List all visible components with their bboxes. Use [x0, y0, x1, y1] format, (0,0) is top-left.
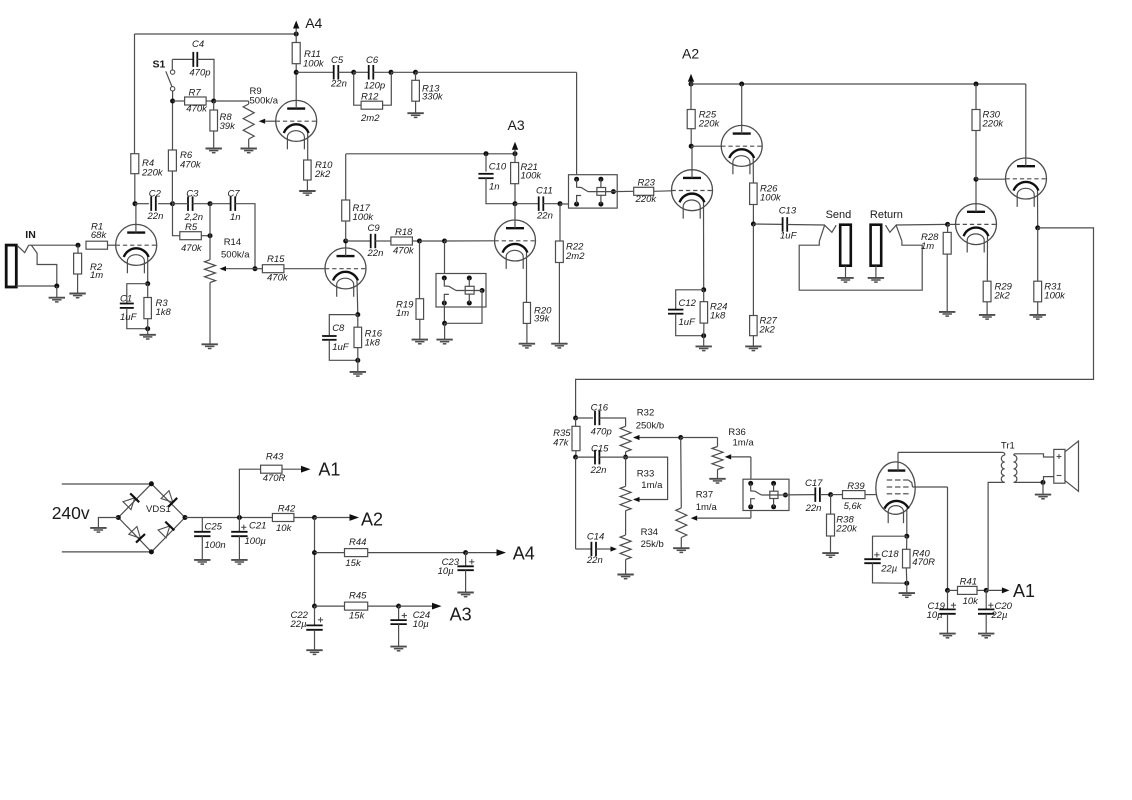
- svg-text:A3: A3: [450, 605, 472, 625]
- svg-text:2k2: 2k2: [314, 169, 331, 180]
- capacitor C2: [135, 189, 173, 223]
- node A3 feed: [399, 603, 472, 625]
- svg-text:A3: A3: [508, 117, 525, 133]
- svg-text:C1: C1: [120, 293, 132, 304]
- ground Send: [837, 266, 853, 282]
- label 240v: [52, 503, 90, 523]
- svg-text:1uF: 1uF: [780, 231, 798, 242]
- resistor R27: [750, 224, 778, 346]
- ground R34: [617, 575, 633, 579]
- ground R9: [241, 149, 257, 153]
- svg-text:2m2: 2m2: [565, 251, 585, 262]
- svg-text:C25: C25: [205, 522, 223, 533]
- capacitor C14: [576, 457, 617, 566]
- svg-text:R42: R42: [278, 504, 296, 515]
- ground R36: [709, 479, 725, 483]
- triode V6: [1006, 158, 1047, 207]
- capacitor C12: [668, 290, 706, 338]
- svg-text:R12: R12: [361, 92, 379, 103]
- svg-text:Send: Send: [826, 209, 852, 221]
- ground R29: [979, 315, 995, 319]
- svg-text:C11: C11: [536, 186, 553, 197]
- svg-text:39k: 39k: [220, 121, 237, 132]
- wiper R37 arrow: [691, 507, 751, 521]
- svg-text:C17: C17: [805, 478, 823, 489]
- wire to R33 wiper: [626, 457, 668, 502]
- svg-text:470p: 470p: [591, 427, 612, 438]
- capacitor C21: [231, 518, 266, 560]
- ground C20: [978, 634, 994, 638]
- svg-text:A2: A2: [361, 509, 383, 529]
- resistor R31: [1034, 228, 1066, 315]
- wire relay RL1 to ground: [442, 290, 482, 339]
- svg-text:C12: C12: [679, 298, 697, 309]
- node screen supply: [945, 588, 950, 593]
- ground R20: [519, 344, 535, 348]
- pot R33: [620, 457, 663, 511]
- svg-text:IN: IN: [25, 229, 36, 241]
- wiper R36 arrow: [725, 454, 751, 484]
- svg-text:R34: R34: [641, 527, 658, 538]
- wire pentode screen: [909, 480, 948, 590]
- svg-text:C15: C15: [591, 444, 609, 455]
- node A4: [293, 15, 323, 37]
- ground R22: [551, 344, 567, 348]
- svg-text:1n: 1n: [489, 182, 500, 193]
- wire V4b grid: [691, 145, 721, 147]
- resistor R44: [315, 537, 469, 569]
- node A1 power: [986, 581, 1035, 601]
- resistor R18: [391, 227, 422, 257]
- wiper R9 arrow: [259, 119, 276, 124]
- wire Tr1 secondary bottom: [1014, 477, 1054, 485]
- svg-text:470R: 470R: [263, 473, 286, 484]
- ground R27: [745, 346, 761, 350]
- pot R34: [620, 511, 664, 575]
- triode V5: [956, 204, 997, 253]
- wire Tr1 primary to A1 node: [986, 482, 1005, 590]
- svg-text:A2: A2: [682, 46, 699, 62]
- svg-text:1uF: 1uF: [679, 317, 697, 328]
- resistor R35: [553, 418, 580, 460]
- svg-text:A4: A4: [305, 15, 322, 31]
- wire C3 to R14: [209, 204, 211, 260]
- svg-text:C8: C8: [332, 323, 345, 334]
- wire V5 plate: [974, 177, 979, 212]
- resistor R4: [131, 154, 164, 204]
- ground R16: [350, 360, 366, 376]
- resistor R17: [342, 154, 375, 241]
- ground R38: [822, 553, 838, 557]
- speaker LS1: [1054, 441, 1079, 491]
- svg-text:R23: R23: [638, 178, 656, 189]
- wire pentode cathode: [904, 508, 909, 538]
- svg-text:A1: A1: [318, 459, 340, 479]
- svg-text:10µ: 10µ: [438, 566, 455, 577]
- relay RL1: [436, 241, 486, 307]
- wire V1b plate: [343, 239, 348, 257]
- svg-text:Tr1: Tr1: [1001, 441, 1015, 452]
- svg-text:C3: C3: [186, 189, 199, 200]
- svg-text:R7: R7: [189, 87, 202, 98]
- resistor R41: [948, 577, 989, 608]
- capacitor C25: [194, 518, 226, 560]
- svg-text:22n: 22n: [330, 79, 347, 90]
- bridge rectifier VDS1: [116, 481, 188, 554]
- ground C21: [231, 560, 247, 564]
- svg-text:A4: A4: [513, 544, 535, 564]
- svg-text:R5: R5: [185, 222, 198, 233]
- ground R13: [407, 113, 423, 117]
- svg-text:10k: 10k: [963, 596, 980, 607]
- triode V3: [495, 220, 536, 269]
- pot R32: [620, 408, 664, 460]
- node A3: [508, 117, 525, 156]
- svg-text:C9: C9: [368, 223, 381, 234]
- resistor R22: [556, 204, 586, 344]
- wiper R32 arrow: [633, 435, 683, 440]
- node C3: [170, 201, 175, 206]
- wire A2 rail: [691, 82, 1026, 87]
- svg-text:250k/b: 250k/b: [636, 421, 665, 432]
- capacitor C4: [172, 39, 214, 101]
- wire send-return loop: [799, 241, 922, 290]
- triode V1b: [325, 248, 366, 297]
- wire V2 cathode: [307, 133, 309, 160]
- capacitor C7: [210, 189, 258, 272]
- svg-text:100k: 100k: [760, 193, 782, 204]
- triode V4b: [721, 125, 762, 174]
- svg-text:2k2: 2k2: [759, 325, 776, 336]
- svg-text:100n: 100n: [205, 540, 226, 551]
- resistor R19: [396, 241, 424, 340]
- ground R2: [69, 294, 85, 298]
- relay RL2: [569, 175, 618, 208]
- svg-text:240v: 240v: [52, 503, 90, 523]
- svg-text:S1: S1: [153, 58, 166, 70]
- capacitor C23: [438, 553, 475, 593]
- svg-text:470k: 470k: [186, 103, 208, 114]
- resistor R3: [144, 284, 172, 329]
- capacitor C20: [978, 590, 1013, 633]
- resistor R5: [173, 204, 213, 254]
- svg-text:470p: 470p: [189, 68, 210, 79]
- svg-text:C5: C5: [331, 55, 344, 66]
- ground relay RL1: [436, 340, 452, 344]
- ground C24: [390, 647, 406, 651]
- wire V5 cathode: [986, 236, 988, 281]
- capacitor C16: [576, 403, 626, 438]
- capacitor C11: [515, 186, 563, 222]
- ground R31: [1030, 315, 1046, 319]
- svg-text:470k: 470k: [181, 243, 203, 254]
- capacitor C18: [864, 536, 909, 586]
- pot R14: [205, 237, 251, 344]
- pot R36: [681, 427, 755, 479]
- wiper R14 arrow: [220, 266, 256, 271]
- svg-text:22n: 22n: [805, 503, 822, 514]
- wire supply chain: [312, 518, 317, 609]
- svg-text:220k: 220k: [141, 168, 164, 179]
- capacitor C17: [785, 478, 833, 514]
- svg-text:Return: Return: [870, 209, 903, 221]
- svg-text:R14: R14: [224, 237, 241, 248]
- svg-text:22n: 22n: [590, 465, 607, 476]
- wire AC line bottom: [62, 551, 152, 553]
- svg-text:C4: C4: [192, 39, 204, 50]
- jack Send: [819, 209, 851, 266]
- resistor R39: [831, 481, 876, 512]
- svg-text:C13: C13: [779, 206, 797, 217]
- resistor R30: [972, 84, 1004, 179]
- resistor R38: [827, 495, 859, 553]
- svg-text:1m: 1m: [921, 241, 934, 252]
- svg-text:1m/a: 1m/a: [733, 437, 755, 448]
- svg-text:C2: C2: [149, 189, 162, 200]
- wire return to V5 grid: [896, 222, 950, 227]
- resistor R29: [983, 281, 1012, 315]
- svg-text:C10: C10: [489, 162, 507, 173]
- capacitor C6: [354, 55, 394, 92]
- ground R24: [696, 336, 712, 351]
- ground C19: [939, 634, 955, 638]
- triode V2: [276, 100, 317, 149]
- resistor R13: [412, 72, 444, 113]
- svg-text:1m/a: 1m/a: [641, 480, 663, 491]
- svg-text:39k: 39k: [534, 314, 551, 325]
- svg-text:22n: 22n: [586, 555, 603, 566]
- resistor R40: [903, 536, 936, 583]
- resistor R42: [272, 504, 317, 535]
- resistor R7: [170, 87, 216, 114]
- svg-text:15k: 15k: [349, 610, 366, 621]
- transformer Tr1: [1001, 441, 1017, 483]
- svg-text:C14: C14: [587, 532, 604, 543]
- wire V3 plate: [514, 204, 516, 229]
- switch S1: [153, 58, 175, 101]
- capacitor C9: [346, 223, 391, 259]
- ground R37: [673, 548, 689, 552]
- svg-text:470k: 470k: [393, 246, 415, 257]
- wire V4a plate: [691, 146, 693, 178]
- wire V2 plate: [295, 72, 297, 108]
- svg-text:100µ: 100µ: [245, 536, 267, 547]
- svg-text:C6: C6: [366, 55, 379, 66]
- resistor R23: [613, 178, 671, 206]
- capacitor C19: [927, 590, 957, 633]
- svg-text:R44: R44: [349, 537, 366, 548]
- wire V1b cathode: [355, 281, 360, 318]
- svg-text:220k: 220k: [698, 119, 721, 130]
- svg-text:100k: 100k: [521, 171, 543, 182]
- capacitor C1: [120, 284, 150, 332]
- capacitor C3: [173, 189, 213, 224]
- svg-text:10k: 10k: [276, 523, 293, 534]
- svg-text:C7: C7: [228, 189, 241, 200]
- svg-text:C21: C21: [249, 520, 266, 531]
- wire plate rail to A3: [346, 153, 515, 155]
- svg-text:470R: 470R: [912, 557, 935, 568]
- ground C25: [194, 560, 210, 564]
- svg-text:2k2: 2k2: [994, 291, 1011, 302]
- resistor R43: [239, 452, 285, 518]
- wire V1a plate: [133, 201, 138, 232]
- svg-text:100k: 100k: [1044, 291, 1066, 302]
- ground R8: [206, 149, 222, 153]
- svg-text:22µ: 22µ: [990, 610, 1008, 621]
- svg-text:500k/a: 500k/a: [221, 250, 250, 261]
- ground bridge: [90, 518, 118, 533]
- wire V5 grid: [948, 223, 956, 225]
- svg-text:10µ: 10µ: [927, 610, 944, 621]
- wire V6 grid: [976, 178, 1006, 180]
- svg-text:470k: 470k: [180, 160, 202, 171]
- svg-text:1uF: 1uF: [332, 342, 350, 353]
- svg-text:R43: R43: [266, 452, 284, 463]
- resistor R8: [210, 101, 236, 149]
- wire C11 to relay RL2: [560, 203, 577, 205]
- svg-text:22n: 22n: [367, 248, 384, 259]
- wire B+ rail: [185, 515, 273, 520]
- wire V4b plate: [741, 84, 743, 134]
- svg-text:22n: 22n: [147, 211, 164, 222]
- svg-text:1n: 1n: [230, 212, 241, 223]
- wire V3 cathode: [526, 253, 528, 303]
- svg-text:68k: 68k: [91, 230, 108, 241]
- node A1 feed: [282, 459, 340, 479]
- wire rail to relay RL2: [416, 72, 577, 179]
- svg-text:5,6k: 5,6k: [844, 501, 863, 512]
- ground R19: [412, 340, 428, 344]
- node A4 feed: [466, 544, 535, 564]
- capacitor C24: [390, 606, 430, 647]
- resistor R24: [700, 290, 727, 336]
- wire Tr1 secondary top: [1014, 454, 1054, 457]
- svg-text:R32: R32: [637, 408, 654, 419]
- svg-text:1k8: 1k8: [365, 337, 381, 348]
- ground R3: [140, 329, 156, 339]
- ground speaker: [1035, 482, 1051, 498]
- wire AC line top: [62, 483, 152, 485]
- resistor R10: [304, 160, 334, 191]
- node A2: [682, 46, 699, 87]
- pentode V7: [876, 462, 915, 523]
- pot R37: [676, 438, 718, 549]
- svg-text:R39: R39: [847, 481, 865, 492]
- svg-text:330k: 330k: [422, 92, 444, 103]
- wire V6 cathode: [1035, 191, 1040, 231]
- resistor R16: [354, 315, 383, 361]
- capacitor C15: [576, 444, 626, 477]
- capacitor C8: [322, 315, 360, 363]
- wire V1a cathode: [145, 257, 150, 286]
- svg-text:1k8: 1k8: [710, 310, 726, 321]
- resistor R28: [921, 224, 951, 312]
- ground R40: [899, 583, 915, 597]
- resistor R26: [750, 183, 782, 227]
- wire V6 plate: [1025, 84, 1027, 166]
- svg-text:R41: R41: [960, 577, 977, 588]
- svg-text:1m: 1m: [90, 270, 103, 281]
- capacitor C13: [753, 206, 824, 242]
- svg-text:100k: 100k: [303, 59, 325, 70]
- wire to R13: [391, 70, 418, 75]
- svg-text:1uF: 1uF: [120, 312, 138, 323]
- resistor R25: [687, 84, 720, 149]
- svg-text:R15: R15: [267, 254, 285, 265]
- wire input: [29, 243, 81, 248]
- svg-text:22µ: 22µ: [880, 564, 898, 575]
- capacitor C22: [290, 606, 324, 650]
- svg-text:47k: 47k: [553, 438, 570, 449]
- svg-text:R18: R18: [395, 227, 413, 238]
- svg-text:220k: 220k: [635, 194, 658, 205]
- svg-text:R37: R37: [696, 490, 713, 501]
- svg-text:22n: 22n: [536, 211, 553, 222]
- ground Return: [868, 266, 884, 282]
- capacitor C10: [478, 151, 515, 204]
- triode V4a: [672, 170, 713, 219]
- jack Return: [870, 209, 903, 266]
- svg-text:VDS1: VDS1: [146, 504, 171, 515]
- node A2 feed: [315, 509, 384, 529]
- svg-text:1m/a: 1m/a: [696, 502, 718, 513]
- resistor R20: [523, 302, 552, 343]
- svg-text:15k: 15k: [345, 558, 362, 569]
- capacitor C5: [296, 55, 356, 90]
- pot R9: [214, 86, 279, 149]
- resistor R11: [292, 34, 325, 75]
- svg-text:1m: 1m: [396, 308, 409, 319]
- wire grid V3: [420, 239, 495, 244]
- svg-text:C18: C18: [881, 549, 899, 560]
- wire V4a cathode: [701, 202, 706, 292]
- ground C23: [457, 593, 473, 597]
- svg-text:470k: 470k: [267, 273, 289, 284]
- resistor R6: [168, 101, 201, 204]
- svg-text:10µ: 10µ: [413, 619, 430, 630]
- ground jack: [49, 286, 65, 302]
- resistor R15: [255, 254, 325, 284]
- resistor R45: [315, 591, 402, 622]
- ground R28: [939, 312, 955, 316]
- ground R14: [202, 344, 218, 348]
- resistor R21: [511, 154, 543, 207]
- jack IN: [6, 229, 59, 289]
- wire A4 rail to R4: [135, 34, 297, 154]
- svg-text:22µ: 22µ: [290, 619, 308, 630]
- resistor R2: [74, 245, 104, 293]
- resistor R12: [354, 72, 392, 124]
- svg-text:220k: 220k: [835, 524, 858, 535]
- svg-text:2m2: 2m2: [360, 113, 380, 124]
- resistor R1: [86, 222, 116, 250]
- svg-text:500k/a: 500k/a: [250, 96, 279, 107]
- svg-text:A1: A1: [1013, 581, 1035, 601]
- wire feedback to tone stack: [573, 228, 1093, 421]
- wire pentode plate: [898, 452, 1003, 470]
- ground R10: [299, 191, 315, 195]
- svg-text:25k/b: 25k/b: [641, 539, 664, 550]
- svg-text:100k: 100k: [353, 212, 375, 223]
- svg-text:220k: 220k: [982, 119, 1005, 130]
- triode V1a: [116, 224, 157, 273]
- wire V4b cathode: [752, 158, 754, 183]
- relay RL3: [743, 479, 789, 510]
- svg-text:R45: R45: [349, 591, 367, 602]
- ground C22: [306, 650, 322, 654]
- svg-text:120p: 120p: [364, 81, 385, 92]
